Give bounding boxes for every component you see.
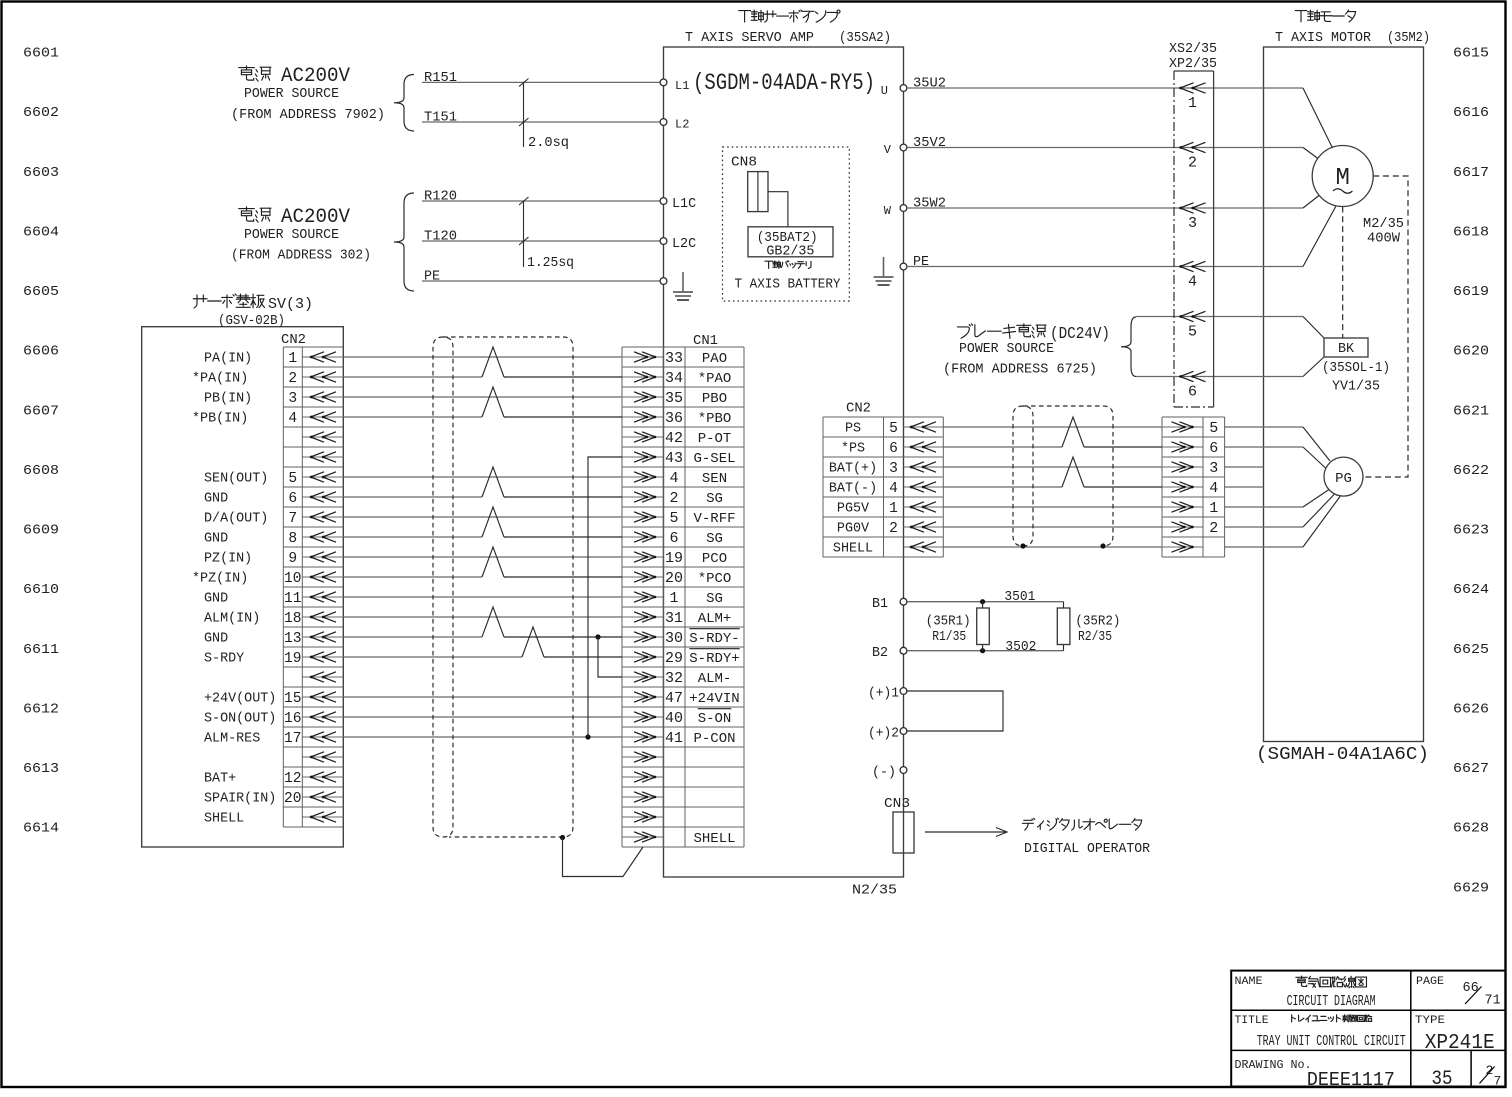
connector CN3 xyxy=(893,812,914,853)
svg-text:6613: 6613 xyxy=(23,761,59,777)
svg-text:CN3: CN3 xyxy=(884,797,910,812)
svg-text:*PB(IN): *PB(IN) xyxy=(192,412,248,427)
svg-text:TITLE: TITLE xyxy=(1235,1015,1269,1027)
label T-axis servo amp (jp) xyxy=(739,10,840,22)
title block 2/7 xyxy=(1480,1063,1502,1089)
connector CN2 amp labels arrows xyxy=(829,421,943,557)
svg-text:4: 4 xyxy=(889,481,898,497)
wire brake6 diag xyxy=(1303,357,1324,377)
wire enc 6 xyxy=(1225,447,1326,468)
label M2/35 xyxy=(1363,217,1404,232)
battery dotted box xyxy=(723,147,850,301)
svg-text:L1C: L1C xyxy=(672,197,696,212)
label SGMAH-04A1A6C xyxy=(1256,745,1429,765)
encoder PG circle xyxy=(1324,457,1363,496)
label POWER SOURCE brake xyxy=(959,342,1054,357)
resistor R2/35 xyxy=(1057,602,1070,651)
svg-text:SHELL: SHELL xyxy=(833,542,873,557)
svg-text:T AXIS SERVO AMP: T AXIS SERVO AMP xyxy=(685,31,814,46)
svg-text:34: 34 xyxy=(665,370,683,387)
label XS2/35 xyxy=(1169,42,1217,57)
wire brake 6 xyxy=(1136,376,1303,378)
label 35BAT2 xyxy=(757,231,818,246)
svg-text:5: 5 xyxy=(1188,324,1197,341)
connector CN8 xyxy=(748,172,768,212)
svg-text:9: 9 xyxy=(288,551,297,567)
svg-text:40: 40 xyxy=(665,710,683,727)
svg-text:AC200V: AC200V xyxy=(281,206,350,229)
wire brake 5 xyxy=(1136,316,1303,318)
svg-text:6607: 6607 xyxy=(23,403,59,419)
wire pair D/A/SG twisted xyxy=(343,507,622,537)
svg-text:5: 5 xyxy=(889,421,898,437)
terminal plus2 xyxy=(868,727,907,742)
svg-text:L2C: L2C xyxy=(672,237,696,252)
svg-text:XP2/35: XP2/35 xyxy=(1169,57,1217,72)
label GSV-02B xyxy=(218,314,285,329)
label POWER SOURCE 2 xyxy=(244,228,339,243)
svg-text:(35R1): (35R1) xyxy=(926,615,971,630)
svg-text:ALM-RES: ALM-RES xyxy=(204,732,260,747)
terminal B2 xyxy=(872,646,907,661)
svg-text:CIRCUIT DIAGRAM: CIRCUIT DIAGRAM xyxy=(1287,993,1376,1010)
svg-text:4: 4 xyxy=(1188,274,1197,291)
wire PS pair twisted xyxy=(943,417,1162,447)
svg-text:(35SA2): (35SA2) xyxy=(839,31,891,46)
wire enc 3 xyxy=(1225,466,1264,468)
label CN2 amp xyxy=(846,402,871,417)
cable shield CN2-CN1 loop xyxy=(433,337,573,837)
svg-text:BK: BK xyxy=(1338,342,1355,357)
label brake power (jp) xyxy=(957,324,1110,344)
brace brake xyxy=(1121,317,1136,377)
svg-text:L2: L2 xyxy=(675,118,689,132)
svg-text:6: 6 xyxy=(889,441,898,457)
svg-text:20: 20 xyxy=(665,570,683,587)
svg-text:GND: GND xyxy=(204,492,228,507)
svg-text:6619: 6619 xyxy=(1453,284,1489,300)
svg-text:6629: 6629 xyxy=(1453,880,1489,896)
svg-text:G-SEL: G-SEL xyxy=(693,451,735,467)
svg-text:6625: 6625 xyxy=(1453,642,1489,658)
connector CN2 amp grid xyxy=(823,417,943,557)
svg-text:XS2/35: XS2/35 xyxy=(1169,42,1217,57)
wire S-ON xyxy=(343,716,622,718)
svg-text:PG0V: PG0V xyxy=(837,522,869,537)
svg-text:TRAY UNIT CONTROL CIRCUIT: TRAY UNIT CONTROL CIRCUIT xyxy=(1257,1033,1406,1050)
terminal L2 xyxy=(660,118,689,132)
brace power source 2 xyxy=(394,193,414,291)
title block DRAWING No xyxy=(1235,1058,1395,1091)
svg-text:T151: T151 xyxy=(424,110,457,125)
left line numbers 6601-6614 xyxy=(23,46,59,837)
label T-axis motor (jp) xyxy=(1295,10,1355,22)
label power source 1 (jp) xyxy=(239,66,271,81)
svg-text:PA(IN): PA(IN) xyxy=(204,352,252,367)
svg-text:S-RDY-: S-RDY- xyxy=(689,631,739,647)
label SGDM-04ADA-RY5 xyxy=(693,70,875,96)
svg-text:SHELL: SHELL xyxy=(693,831,735,847)
svg-text:66: 66 xyxy=(1463,981,1479,996)
svg-text:2: 2 xyxy=(288,371,297,387)
wire brake5 diag xyxy=(1303,317,1324,339)
svg-text:T AXIS BATTERY: T AXIS BATTERY xyxy=(735,278,841,293)
svg-text:GB2/35: GB2/35 xyxy=(766,245,814,260)
svg-text:(35M2): (35M2) xyxy=(1387,31,1430,46)
svg-text:6626: 6626 xyxy=(1453,701,1489,717)
svg-text:43: 43 xyxy=(665,450,683,467)
svg-text:5: 5 xyxy=(669,510,678,527)
svg-text:*PS: *PS xyxy=(841,442,865,457)
brace power source 1 xyxy=(394,75,414,132)
terminal PE left xyxy=(660,278,667,285)
servo board box SV3 xyxy=(142,327,344,847)
wire enc 2 xyxy=(1225,494,1335,527)
wire T120 xyxy=(422,229,660,244)
terminal B1 xyxy=(872,597,907,612)
svg-text:CN2: CN2 xyxy=(281,333,306,348)
terminal W xyxy=(884,204,907,218)
title block frame xyxy=(1231,971,1505,1087)
svg-text:(FROM ADDRESS 6725): (FROM ADDRESS 6725) xyxy=(943,363,1097,378)
title block TITLE xyxy=(1235,1015,1406,1050)
wire SHELL enc xyxy=(943,546,1162,548)
svg-text:DEEE1117: DEEE1117 xyxy=(1307,1069,1395,1091)
svg-text:1: 1 xyxy=(288,351,297,367)
svg-text:PCO: PCO xyxy=(702,551,727,567)
wire 35W2 xyxy=(907,197,1303,212)
label 400W xyxy=(1367,232,1401,247)
title block PAGE xyxy=(1416,976,1501,1009)
svg-text:AC200V: AC200V xyxy=(281,65,350,88)
wire pair PB/*PB twisted xyxy=(343,387,622,417)
svg-text:42: 42 xyxy=(665,430,683,447)
svg-text:6604: 6604 xyxy=(23,224,59,240)
svg-text:11: 11 xyxy=(284,591,302,607)
shield drain to CN1 SHELL xyxy=(560,835,643,877)
svg-text:(-): (-) xyxy=(872,766,896,781)
wire enc 4 xyxy=(1225,486,1264,488)
label servo board SV3 (jp) xyxy=(193,294,313,313)
wire R151 xyxy=(422,71,660,86)
wire S-RDY twisted xyxy=(343,627,622,657)
svg-text:1: 1 xyxy=(669,590,678,607)
svg-text:1: 1 xyxy=(889,501,898,517)
svg-text:PG: PG xyxy=(1335,471,1352,487)
svg-text:10: 10 xyxy=(284,571,302,587)
svg-text:71: 71 xyxy=(1485,994,1501,1009)
svg-text:SG: SG xyxy=(706,491,723,507)
svg-text:TYPE: TYPE xyxy=(1415,1015,1445,1027)
svg-text:6602: 6602 xyxy=(23,105,59,121)
svg-text:PG5V: PG5V xyxy=(837,502,869,517)
wire R120 xyxy=(422,189,660,204)
svg-text:PZ(IN): PZ(IN) xyxy=(204,552,252,567)
svg-text:3: 3 xyxy=(288,391,297,407)
svg-text:32: 32 xyxy=(665,670,683,687)
svg-text:6611: 6611 xyxy=(23,642,59,658)
svg-text:30: 30 xyxy=(665,630,683,647)
svg-text:7: 7 xyxy=(288,511,297,527)
label T-axis battery (jp) xyxy=(765,261,811,269)
label 35R2 xyxy=(1075,615,1120,630)
svg-text:35V2: 35V2 xyxy=(913,136,946,151)
wire pair ALM/GND twisted xyxy=(343,607,622,637)
svg-text:*PAO: *PAO xyxy=(698,371,732,387)
svg-text:SV(3): SV(3) xyxy=(268,296,313,313)
title block sheet 35 xyxy=(1432,1068,1453,1091)
svg-text:7: 7 xyxy=(1494,1074,1502,1089)
ground left PE xyxy=(673,272,693,300)
svg-text:PB(IN): PB(IN) xyxy=(204,392,252,407)
svg-text:V-RFF: V-RFF xyxy=(693,511,735,527)
wire PE to motor xyxy=(907,266,1303,268)
svg-text:3502: 3502 xyxy=(1005,640,1036,655)
battery GB2/35 box xyxy=(748,227,833,257)
connector CN2 arrows xyxy=(302,352,343,822)
svg-text:6601: 6601 xyxy=(23,46,59,62)
svg-text:6628: 6628 xyxy=(1453,821,1489,837)
wire W diag xyxy=(1303,196,1319,209)
svg-text:M2/35: M2/35 xyxy=(1363,217,1404,232)
label CN2 left xyxy=(281,333,306,348)
wire V diag xyxy=(1303,148,1318,159)
svg-text:1: 1 xyxy=(1209,500,1218,517)
svg-text:XP241E: XP241E xyxy=(1425,1032,1495,1055)
svg-text:35U2: 35U2 xyxy=(913,77,946,92)
terminal plus1 xyxy=(868,687,907,702)
svg-text:6618: 6618 xyxy=(1453,224,1489,240)
svg-text:6609: 6609 xyxy=(23,523,59,539)
motor box 35M2 xyxy=(1264,47,1424,742)
svg-text:PAO: PAO xyxy=(702,351,727,367)
svg-text:(FROM ADDRESS 7902): (FROM ADDRESS 7902) xyxy=(231,108,385,123)
svg-text:ALM-: ALM- xyxy=(698,671,732,687)
label GB2/35 xyxy=(766,245,814,260)
wire PE input xyxy=(422,269,660,284)
svg-text:6624: 6624 xyxy=(1453,582,1489,598)
svg-text:6612: 6612 xyxy=(23,701,59,717)
svg-text:SPAIR(IN): SPAIR(IN) xyxy=(204,792,276,807)
wire G-SEL jog xyxy=(588,457,622,737)
wire size 1.25sq xyxy=(519,197,574,271)
svg-text:6610: 6610 xyxy=(23,582,59,598)
svg-text:6616: 6616 xyxy=(1453,105,1489,121)
svg-text:6617: 6617 xyxy=(1453,165,1489,181)
wire size 2.0sq xyxy=(519,79,569,152)
connector XS2/XP2 box xyxy=(1174,71,1214,407)
svg-text:19: 19 xyxy=(284,651,302,667)
svg-text:POWER SOURCE: POWER SOURCE xyxy=(959,342,1054,357)
svg-text:BAT(-): BAT(-) xyxy=(829,482,877,497)
svg-text:(FROM ADDRESS 302): (FROM ADDRESS 302) xyxy=(231,249,371,264)
svg-text:ALM(IN): ALM(IN) xyxy=(204,612,260,627)
cable shield PS loop xyxy=(1013,406,1113,549)
svg-text:35W2: 35W2 xyxy=(913,197,946,212)
svg-text:36: 36 xyxy=(665,410,683,427)
label DIGITAL OPERATOR xyxy=(1024,842,1150,857)
svg-text:B1: B1 xyxy=(872,597,888,612)
label T AXIS SERVO AMP xyxy=(685,31,891,46)
wire BAT pair twisted xyxy=(943,457,1162,487)
label T AXIS MOTOR xyxy=(1275,31,1430,46)
svg-text:L1: L1 xyxy=(675,79,689,93)
svg-text:BAT(+): BAT(+) xyxy=(829,462,877,477)
svg-text:PAGE: PAGE xyxy=(1416,976,1444,988)
label FROM ADDRESS 7902 xyxy=(231,108,385,123)
right line numbers 6615-6629 xyxy=(1453,46,1489,897)
svg-text:35: 35 xyxy=(1432,1068,1453,1091)
svg-text:6623: 6623 xyxy=(1453,523,1489,539)
svg-text:*PA(IN): *PA(IN) xyxy=(192,372,248,387)
svg-text:2.0sq: 2.0sq xyxy=(528,136,569,151)
svg-text:N2/35: N2/35 xyxy=(852,884,897,899)
svg-text:(SGDM-04ADA-RY5): (SGDM-04ADA-RY5) xyxy=(693,70,875,96)
svg-text:33: 33 xyxy=(665,350,683,367)
svg-text:12: 12 xyxy=(284,771,302,787)
brake BK box xyxy=(1324,338,1368,357)
svg-text:GND: GND xyxy=(204,632,228,647)
svg-text:U: U xyxy=(881,84,888,98)
label 35SOL-1 xyxy=(1322,361,1390,376)
terminal U xyxy=(881,84,907,98)
svg-text:2: 2 xyxy=(1209,520,1218,537)
label digital operator (jp) xyxy=(1022,818,1141,830)
svg-text:PBO: PBO xyxy=(702,391,727,407)
terminal L2C xyxy=(660,237,696,252)
svg-text:POWER SOURCE: POWER SOURCE xyxy=(244,87,339,102)
terminal V xyxy=(884,143,907,157)
svg-text:SG: SG xyxy=(706,531,723,547)
arrow to digital operator xyxy=(925,828,1007,837)
svg-text:SG: SG xyxy=(706,591,723,607)
svg-text:V: V xyxy=(884,143,892,157)
svg-text:(SGMAH-04A1A6C): (SGMAH-04A1A6C) xyxy=(1256,745,1429,765)
wire CN8 to battery xyxy=(768,192,788,227)
svg-text:6: 6 xyxy=(288,491,297,507)
svg-text:4: 4 xyxy=(1209,480,1218,497)
svg-text:PS: PS xyxy=(845,422,861,437)
svg-text:BAT+: BAT+ xyxy=(204,772,236,787)
wire U diag xyxy=(1303,88,1333,148)
svg-text:(+)2: (+)2 xyxy=(868,727,899,742)
svg-text:6608: 6608 xyxy=(23,463,59,479)
svg-text:(GSV-02B): (GSV-02B) xyxy=(218,314,285,329)
svg-text:6622: 6622 xyxy=(1453,463,1489,479)
svg-text:2: 2 xyxy=(669,490,678,507)
svg-text:6614: 6614 xyxy=(23,821,59,837)
wire 35U2 xyxy=(907,77,1303,92)
svg-text:(+)1: (+)1 xyxy=(868,687,899,702)
wire pair SEN/SG twisted xyxy=(343,467,622,497)
svg-text:6603: 6603 xyxy=(23,165,59,181)
svg-text:T120: T120 xyxy=(424,229,457,244)
svg-text:400W: 400W xyxy=(1367,232,1401,247)
svg-text:P-CON: P-CON xyxy=(693,731,735,747)
wire pair PA/*PA twisted xyxy=(343,347,622,377)
wire enc 1 xyxy=(1225,490,1329,508)
svg-text:6: 6 xyxy=(1209,440,1218,457)
resistor R1/35 xyxy=(977,602,990,651)
svg-text:R151: R151 xyxy=(424,71,457,86)
label XP2/35 xyxy=(1169,57,1217,72)
svg-text:6: 6 xyxy=(669,530,678,547)
svg-text:S-RDY: S-RDY xyxy=(204,652,244,667)
svg-text:18: 18 xyxy=(284,611,302,627)
wire T151 xyxy=(422,110,660,125)
svg-text:DRAWING No.: DRAWING No. xyxy=(1235,1058,1312,1072)
label CN1 xyxy=(693,334,718,349)
label CN3 xyxy=(884,797,910,812)
svg-text:SHELL: SHELL xyxy=(204,812,244,827)
svg-text:SEN: SEN xyxy=(702,471,727,487)
svg-text:GND: GND xyxy=(204,592,228,607)
svg-text:PE: PE xyxy=(424,269,440,284)
label FROM ADDRESS 6725 xyxy=(943,363,1097,378)
wire enc shell xyxy=(1225,497,1340,548)
terminal PE right xyxy=(900,255,929,270)
wire S-RDY- to ALM- jog xyxy=(595,634,622,677)
svg-text:29: 29 xyxy=(665,650,683,667)
jumper plus1-plus2 xyxy=(907,691,1003,731)
terminal L1C xyxy=(660,197,696,212)
title block NAME xyxy=(1235,976,1376,1010)
wire B1 xyxy=(907,599,1064,604)
label R1/35 xyxy=(932,630,966,645)
wire PG5V xyxy=(943,506,1162,508)
connector XS2 pins xyxy=(1179,83,1205,401)
label power source 2 (jp) xyxy=(239,207,271,222)
svg-text:R120: R120 xyxy=(424,189,457,204)
svg-text:4: 4 xyxy=(288,411,297,427)
servo amp box 35SA2 xyxy=(664,47,904,877)
wire B2 xyxy=(907,648,1064,653)
svg-text:3: 3 xyxy=(889,461,898,477)
svg-text:31: 31 xyxy=(665,610,683,627)
svg-text:D/A(OUT): D/A(OUT) xyxy=(204,512,268,527)
svg-text:3: 3 xyxy=(1188,215,1197,232)
svg-text:6: 6 xyxy=(1188,384,1197,401)
svg-text:6615: 6615 xyxy=(1453,46,1489,62)
wire PG0V xyxy=(943,526,1162,528)
label R2/35 xyxy=(1078,630,1112,645)
svg-text:+24V(OUT): +24V(OUT) xyxy=(204,692,276,707)
svg-text:6605: 6605 xyxy=(23,284,59,300)
svg-text:PE: PE xyxy=(913,255,929,270)
connector CN1 arrows and labels xyxy=(622,350,740,847)
wire +24V xyxy=(343,696,622,698)
svg-text:R2/35: R2/35 xyxy=(1078,630,1112,645)
svg-text:R1/35: R1/35 xyxy=(932,630,966,645)
svg-text:20: 20 xyxy=(284,791,302,807)
connector CN2 grid xyxy=(283,347,343,827)
svg-text:15: 15 xyxy=(284,691,302,707)
svg-text:2: 2 xyxy=(889,521,898,537)
svg-text:*PBO: *PBO xyxy=(698,411,732,427)
label CN8 xyxy=(731,156,757,171)
label 3501 xyxy=(1004,590,1035,605)
svg-text:17: 17 xyxy=(284,731,302,747)
svg-text:P-OT: P-OT xyxy=(698,431,732,447)
svg-text:*PCO: *PCO xyxy=(698,571,732,587)
svg-text:S-ON: S-ON xyxy=(698,711,732,727)
label N2/35 xyxy=(852,884,897,899)
svg-text:6620: 6620 xyxy=(1453,344,1489,360)
svg-text:(DC24V): (DC24V) xyxy=(1050,325,1110,344)
terminal minus xyxy=(872,766,907,781)
svg-text:5: 5 xyxy=(288,471,297,487)
connector CN1 grid xyxy=(622,347,744,847)
